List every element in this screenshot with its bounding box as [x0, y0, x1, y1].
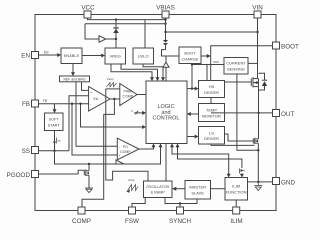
wire: switch to BOOT CHARGE — [167, 55, 179, 57]
svg-text:SYNCH: SYNCH — [169, 218, 191, 225]
wire: sense to ILIM FUNCTION — [241, 173, 243, 176]
node: SNS junction — [191, 63, 193, 65]
svg-text:MASTER: MASTER — [189, 184, 206, 189]
wire: VBIAS rail 2 — [85, 23, 166, 25]
svg-text:SENSING: SENSING — [227, 67, 245, 72]
svg-text:HS: HS — [209, 84, 215, 89]
wire: CURRENT SENSING to VIN line — [248, 62, 258, 64]
svg-text:FUNCTION: FUNCTION — [226, 189, 247, 194]
node: OUT junction — [257, 112, 259, 114]
svg-text:VREG: VREG — [110, 53, 121, 58]
node: FB / logic branch junction — [79, 103, 81, 105]
wire: ramp riser from oscillator — [106, 89, 148, 181]
wire: ILIM FUNCTION to GND rail — [248, 181, 273, 183]
wire: EA output — [110, 98, 120, 100]
block BOOT CHARGE — [179, 47, 201, 64]
svg-text:FB: FB — [22, 101, 30, 108]
wire: LOGIC to ILIM 1 — [172, 147, 229, 174]
svg-text:+: + — [118, 154, 120, 158]
block ENABLE — [61, 48, 82, 64]
wire: SS riser to EA input2 — [69, 96, 89, 151]
svg-text:ILIM: ILIM — [230, 218, 242, 225]
svg-text:DRIVER: DRIVER — [204, 136, 219, 141]
block SOFT START — [45, 113, 64, 131]
comparator PWM COMP — [120, 84, 137, 106]
wire: switch node — [258, 87, 260, 139]
wire: FB arrow into SOFT START — [54, 104, 56, 110]
svg-text:SLAVE: SLAVE — [191, 190, 204, 195]
wire: ramp to PWM COMP — [106, 88, 120, 90]
ramp waveform icon at PWM COMP — [107, 83, 117, 87]
buffer U2 triangle — [99, 36, 106, 42]
pad VCC — [84, 11, 91, 18]
svg-text:TEMP: TEMP — [206, 108, 217, 113]
svg-text:ENABLE: ENABLE — [64, 53, 80, 58]
IC boundary — [35, 15, 276, 211]
wire: BOOT CHARGE to boot rail — [201, 55, 207, 57]
buffer U4 on PGOOD line — [116, 160, 124, 164]
svg-text:PG: PG — [123, 145, 128, 149]
svg-text:FSW: FSW — [125, 218, 139, 225]
block VREG — [105, 48, 126, 64]
svg-text:& RAMP: & RAMP — [151, 191, 166, 195]
wire: ENABLE to REF and BIAS — [72, 64, 74, 73]
svg-text:BOOT: BOOT — [184, 51, 196, 56]
block CURRENT SENSING — [224, 58, 248, 75]
wire: SNS line — [192, 64, 224, 66]
svg-text:DRIVER: DRIVER — [204, 90, 219, 95]
wire: HS DRIVER gate out — [225, 81, 252, 83]
transistor Q3 (PGOOD pull-down) — [78, 163, 90, 188]
svg-text:3: 3 — [131, 109, 133, 113]
wire: EN to ENABLE — [39, 54, 58, 56]
svg-text:OUT: OUT — [281, 111, 294, 118]
svg-text:START: START — [48, 123, 61, 127]
svg-text:CONTROL: CONTROL — [153, 116, 180, 122]
wire: LS source to GND rail — [257, 143, 259, 182]
wire: PWM COMP to LOGIC — [137, 94, 146, 96]
wire: boot rail — [211, 46, 273, 81]
wire: SYNCH rail — [165, 198, 197, 204]
wire: EA output to COMP pin riser — [82, 99, 114, 208]
ground symbol under Q3 — [85, 188, 93, 193]
pin OUT — [273, 110, 280, 117]
svg-text:COMP: COMP — [120, 150, 131, 154]
svg-text:SS: SS — [22, 148, 30, 155]
svg-text:PGOOD: PGOOD — [7, 172, 31, 179]
wire: soft start node down to PGOOD fet drain line — [55, 151, 114, 164]
wire: LOGIC to OSCILLATOR — [165, 144, 167, 182]
pin SYNCH — [177, 207, 184, 214]
node: VCC rail / VREG riser junction — [115, 18, 117, 20]
node: buffer output junction — [115, 38, 117, 40]
block REF and BIAS — [60, 76, 90, 82]
wire: buffer output to VREG riser — [106, 38, 116, 40]
wire: LS DRIVER gate out — [225, 134, 254, 141]
svg-text:BOOT: BOOT — [281, 44, 299, 51]
wire: LOGIC to HS DRIVER — [187, 88, 195, 90]
svg-text:EA: EA — [94, 97, 99, 101]
switch SW1 (VBIAS switchover) — [162, 46, 168, 56]
transistor Q1 (HS MOSFET) — [244, 77, 259, 87]
wire: PGOOD to Q3 gate — [39, 173, 79, 175]
wire: LS DRIVER return — [211, 144, 255, 145]
current source Iss — [54, 131, 56, 151]
block MASTER SLAVE — [185, 181, 211, 200]
pin BOOT — [273, 42, 280, 49]
svg-text:COMP: COMP — [123, 95, 134, 99]
block HS DRIVER — [199, 81, 225, 98]
wire: OUT line — [211, 112, 273, 114]
svg-text:Ib: Ib — [243, 170, 246, 173]
svg-text:EN: EN — [21, 53, 30, 60]
svg-text:LS: LS — [209, 130, 214, 135]
svg-text:EN: EN — [44, 50, 49, 54]
node: SS junction — [53, 150, 55, 152]
bus arrow into LOGIC — [134, 112, 143, 114]
wire: VREG out 2 to LOGIC — [121, 64, 158, 78]
pad VBIAS — [162, 11, 169, 18]
wire: CURRENT SENSING bottom to ILIM sense — [237, 74, 258, 150]
wire: buffer U3 top stub — [165, 56, 167, 62]
pin GND — [273, 178, 280, 185]
node: EA output junction — [113, 98, 115, 100]
wire: ILIM pad stub — [235, 200, 237, 207]
ramp waveform icon at oscillator — [128, 185, 139, 191]
node: boot-charge / HS input junction — [191, 87, 193, 89]
svg-text:CHARGE: CHARGE — [181, 56, 198, 61]
pin ILIM — [233, 207, 240, 214]
wire: VREG riser from VCC rail — [115, 20, 117, 48]
ground symbol at GND rail — [254, 182, 262, 191]
wire: SNS to HS driver top — [206, 65, 208, 81]
buffer U2 feedback loop — [85, 24, 99, 39]
svg-text:SNS: SNS — [213, 60, 219, 64]
diode D2 on VBIAS riser (double arrowhead) — [163, 40, 168, 46]
pin FSW — [129, 207, 136, 214]
current sense marker Ib — [239, 169, 241, 174]
wire: SS pad rail — [39, 150, 70, 152]
block LS DRIVER — [199, 127, 225, 145]
svg-text:FB: FB — [43, 99, 47, 103]
block TEMP MONITOR — [199, 104, 225, 122]
transistor Q2 (LS MOSFET) — [253, 138, 258, 144]
svg-text:Vramp: Vramp — [128, 179, 135, 182]
block UVLO — [133, 48, 154, 64]
svg-text:GND: GND — [281, 179, 295, 186]
svg-text:Vramp: Vramp — [107, 78, 114, 81]
block OSCILLATOR & RAMP — [144, 181, 173, 198]
wire: VIN riser — [257, 18, 259, 79]
node: SYNCH rail junction — [179, 202, 181, 204]
wire: UVLO riser from VCC rail — [144, 20, 146, 48]
svg-text:REF and BIAS: REF and BIAS — [63, 77, 86, 81]
node: VIN riser junction — [256, 31, 258, 33]
wire: TEMP MONITOR to LOGIC — [191, 113, 199, 115]
svg-text:OSCILLATOR: OSCILLATOR — [146, 185, 169, 189]
wire: FB to EA inv — [39, 103, 89, 105]
svg-text:PWM: PWM — [124, 89, 133, 93]
node: FB / PG comp junction — [71, 103, 73, 105]
svg-text:VBIAS: VBIAS — [156, 4, 175, 11]
wire: FSW riser — [132, 198, 145, 208]
wire: LOGIC bottom to PGOOD fet line — [113, 147, 161, 164]
svg-text:SOFT: SOFT — [49, 118, 60, 122]
wire: LOGIC to ILIM 2 — [178, 147, 242, 168]
wire: ENABLE to VREG — [82, 55, 102, 57]
wire: PG COMP output to LOGIC — [139, 147, 154, 149]
pin PGOOD — [32, 171, 39, 178]
node: LS source sense junction — [257, 149, 259, 151]
pad VIN — [254, 11, 261, 18]
node: GND junction — [257, 181, 259, 183]
svg-text:VCC: VCC — [81, 4, 95, 11]
wire: SYNCH pad stub — [179, 204, 181, 208]
pin SS — [32, 147, 39, 154]
wire: LOGIC to LS DRIVER — [187, 136, 195, 138]
wire: VIN rail — [166, 31, 258, 33]
wire: VBIAS riser — [165, 18, 167, 40]
op-amp EA — [89, 87, 110, 112]
wire: BOOT CHARGE bottom to HS input line — [191, 64, 193, 89]
buffer U3 (switch driver) — [163, 62, 169, 67]
svg-text:CURRENT: CURRENT — [226, 61, 246, 66]
comparator PG COMP — [117, 138, 139, 160]
wire: MASTER SLAVE to OSCILLATOR — [176, 188, 185, 190]
svg-text:UVLO: UVLO — [138, 53, 149, 58]
wire: REF to EA+ — [82, 82, 89, 91]
svg-text:ILIM: ILIM — [232, 183, 240, 188]
node: VBIAS/VIN rail junction — [164, 31, 166, 33]
block LOGIC and CONTROL — [146, 81, 187, 144]
svg-text:Iss: Iss — [58, 140, 62, 143]
pin COMP — [78, 207, 85, 214]
svg-text:+: + — [90, 91, 92, 95]
pin EN — [32, 52, 39, 59]
wire: VCC rail — [88, 18, 166, 20]
wire: REF to PG COMP inv — [76, 82, 117, 147]
block ILIM FUNCTION — [225, 178, 248, 201]
wire: UVLO out to LOGIC — [143, 64, 163, 78]
wire: HS DRIVER return to switch node — [210, 98, 212, 113]
diode D1 on VREG riser — [113, 27, 119, 33]
wire: FB branch to LOGIC — [81, 104, 143, 127]
svg-text:COMP: COMP — [72, 218, 91, 225]
svg-text:VIN: VIN — [252, 4, 263, 11]
wire: MASTER SLAVE to ILIM FUNCTION — [211, 188, 226, 190]
node: VBIAS/VCC rail junction — [164, 18, 166, 20]
pin FB — [32, 100, 39, 107]
diode D3 (HS body diode) — [259, 73, 268, 90]
wire: VREG out 1 to LOGIC — [111, 64, 152, 78]
svg-text:MONITOR: MONITOR — [202, 113, 221, 118]
wire: buffer U3 to LOGIC top — [165, 67, 167, 81]
wire: FB branch to PG COMP + — [72, 104, 117, 155]
